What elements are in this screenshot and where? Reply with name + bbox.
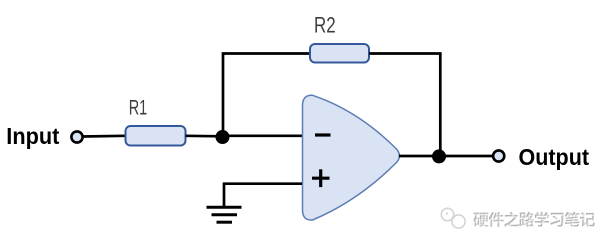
wire input to R1 [83, 134, 125, 137]
op-amp U1 [303, 95, 400, 220]
wire R1 to node A [186, 134, 223, 137]
wire op-amp non-inverting input to ground [224, 184, 302, 206]
svg-text:Input: Input [6, 123, 59, 149]
watermark logo icon [441, 208, 465, 228]
op-amp minus symbol [315, 133, 331, 136]
op-amp plus symbol [312, 177, 330, 180]
terminal output [493, 150, 504, 161]
svg-text:R2: R2 [314, 13, 336, 38]
terminal input [71, 131, 82, 142]
node B junction dot [432, 149, 446, 163]
watermark text: brand watermark (vector outlines) [473, 212, 596, 229]
wire node A up to feedback [223, 54, 310, 138]
svg-text:Output: Output [519, 144, 590, 170]
wire node A to op-amp inverting input [223, 134, 304, 137]
wire R2 to output node [369, 54, 440, 157]
node A junction dot [216, 130, 230, 144]
wire op-amp output to node B [399, 155, 439, 158]
wire node B to output terminal [439, 155, 493, 158]
resistor R1 [126, 126, 186, 146]
resistor R2 [310, 44, 369, 63]
svg-text:R1: R1 [129, 96, 148, 120]
ground [207, 207, 242, 222]
